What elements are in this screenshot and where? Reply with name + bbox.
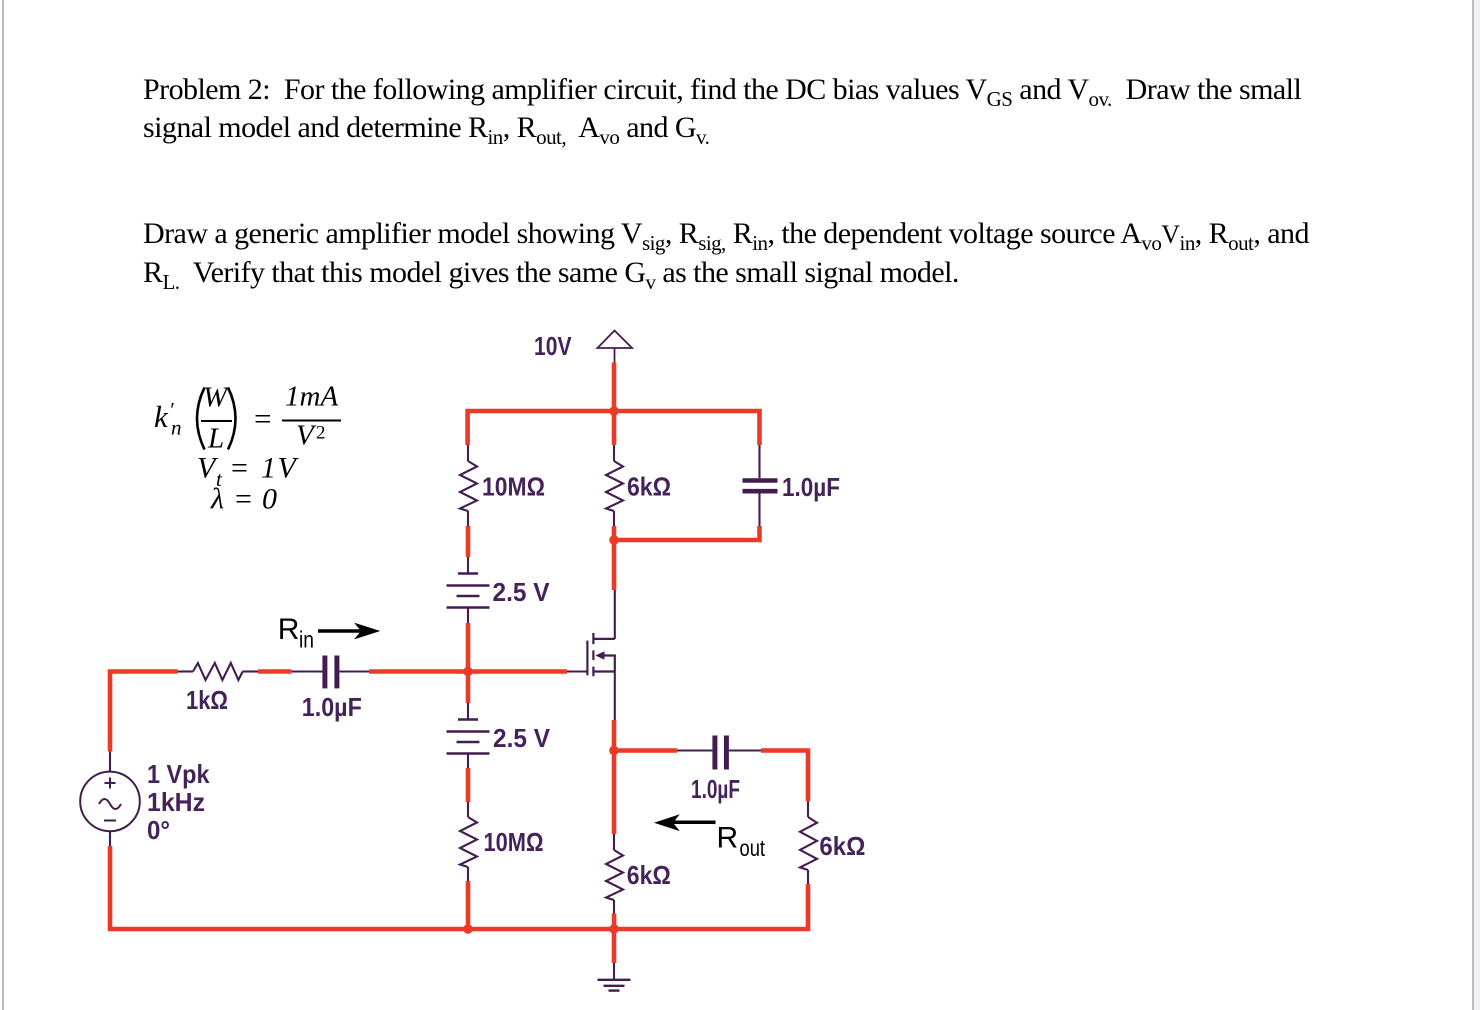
right page border bbox=[1472, 0, 1475, 1010]
left big paren bbox=[197, 388, 205, 450]
svg-text:1.0µF: 1.0µF bbox=[691, 774, 740, 804]
resistor R4 10MOhm (lower gate bias) bbox=[460, 817, 477, 867]
svg-text:R: R bbox=[717, 822, 739, 855]
battery V1 2.5V (upper) bbox=[447, 574, 490, 608]
svg-text:2.5 V: 2.5 V bbox=[493, 723, 551, 753]
equation kn'(W/L)=1mA/V^2 bbox=[154, 398, 182, 440]
node: supply rail junction bbox=[609, 406, 619, 416]
svg-text:k: k bbox=[154, 399, 169, 434]
wire: R2 leads bbox=[467, 445, 469, 526]
svg-text:0: 0 bbox=[262, 483, 277, 516]
wire: drain column red segments bbox=[612, 411, 617, 590]
resistor R3 6kOhm (drain) bbox=[606, 461, 623, 511]
wire: gate column red segments bbox=[466, 526, 471, 931]
svg-text:V: V bbox=[296, 420, 317, 452]
svg-text:n: n bbox=[171, 416, 182, 440]
equation Vt = 1 V bbox=[197, 452, 300, 492]
wire: top supply rail bbox=[468, 411, 760, 445]
wire: ground lead bbox=[613, 963, 615, 979]
ground bbox=[598, 980, 631, 991]
svg-text:in: in bbox=[299, 627, 314, 653]
wire: output row to load bbox=[614, 751, 808, 802]
svg-text:=: = bbox=[231, 452, 248, 485]
svg-text:10MΩ: 10MΩ bbox=[484, 827, 544, 857]
svg-text:10V: 10V bbox=[534, 331, 572, 361]
wire: C2 leads bbox=[758, 445, 760, 526]
svg-text:6kΩ: 6kΩ bbox=[627, 472, 671, 502]
svg-text:2: 2 bbox=[316, 423, 326, 444]
wire: left loop (source column, bottom rail, right load column) bbox=[110, 672, 808, 930]
capacitor C1 1.0uF (input coupling) bbox=[325, 656, 337, 689]
svg-text:10MΩ: 10MΩ bbox=[482, 472, 545, 502]
resistor R2 10MOhm (upper gate bias) bbox=[460, 461, 477, 511]
node: gate junction bbox=[463, 667, 473, 677]
wire: R1 lead left bbox=[178, 670, 193, 672]
battery V2 2.5V (lower) bbox=[447, 720, 490, 754]
resistor R6 6kOhm (load) bbox=[800, 817, 817, 870]
node: source junction bbox=[609, 746, 619, 756]
svg-text:=: = bbox=[254, 401, 271, 436]
node: bottom rail junction right bbox=[609, 924, 619, 934]
wire: input row red segments bbox=[258, 669, 567, 674]
svg-text:V: V bbox=[278, 452, 300, 485]
svg-text:1kΩ: 1kΩ bbox=[186, 685, 228, 715]
svg-text:1.0µF: 1.0µF bbox=[782, 472, 840, 502]
wire: gate lead of Q1 bbox=[567, 670, 587, 672]
wire: R3 leads bbox=[613, 445, 615, 526]
wire: V1 leads bbox=[467, 557, 469, 623]
wire: C3 lead left bbox=[677, 749, 712, 751]
wire: R4 leads bbox=[467, 802, 469, 881]
transistor Q1 NMOS bbox=[587, 633, 614, 676]
left page border bbox=[2, 0, 4, 1010]
node: bottom rail junction left bbox=[463, 924, 473, 934]
wire: R6 leads bbox=[807, 801, 809, 884]
source V3 AC 1Vpk bbox=[80, 772, 140, 832]
wire: R1 lead right bbox=[243, 670, 258, 672]
svg-text:1.0µF: 1.0µF bbox=[302, 692, 362, 722]
svg-text:out: out bbox=[740, 835, 766, 861]
wire: V3 bottom lead bbox=[109, 832, 111, 847]
paragraph 2 bbox=[143, 215, 1480, 292]
svg-text:0°: 0° bbox=[147, 815, 170, 845]
wire: C1 lead left bbox=[292, 670, 323, 672]
svg-text:=: = bbox=[235, 483, 252, 516]
wire: Q1 source lead bbox=[614, 672, 616, 721]
svg-text:2.5 V: 2.5 V bbox=[493, 577, 551, 607]
resistor R5 6kOhm (source) bbox=[606, 850, 623, 900]
svg-text:L: L bbox=[207, 423, 224, 455]
svg-text:W: W bbox=[203, 382, 230, 414]
wire: V2 leads bbox=[467, 703, 469, 768]
svg-text:1mA: 1mA bbox=[285, 381, 338, 413]
wire: R5 leads bbox=[613, 834, 615, 914]
wire: supply stub bbox=[612, 363, 617, 414]
node: drain junction bbox=[609, 535, 619, 545]
wire: Q1 drain lead bbox=[614, 590, 616, 639]
equation lambda = 0 bbox=[210, 483, 277, 516]
capacitor C3 1.0uF (output coupling) bbox=[715, 736, 727, 770]
wire: V3 top lead bbox=[109, 752, 111, 773]
wire: C1 lead right bbox=[339, 670, 369, 672]
svg-text:6kΩ: 6kΩ bbox=[627, 860, 671, 890]
wire: source column red segments bbox=[612, 720, 617, 963]
svg-text:R: R bbox=[278, 613, 300, 646]
svg-text:λ: λ bbox=[210, 483, 224, 516]
right big paren bbox=[228, 388, 236, 450]
capacitor C2 1.0uF (drain bypass) bbox=[743, 481, 778, 492]
svg-text:1: 1 bbox=[261, 452, 276, 485]
power symbol 10V supply triangle bbox=[598, 331, 633, 363]
resistor R1 1kOhm (signal) bbox=[193, 663, 243, 680]
svg-text:1kHz: 1kHz bbox=[147, 787, 205, 817]
right gutter strip bbox=[1474, 0, 1480, 1010]
paragraph 1 bbox=[143, 71, 1480, 147]
svg-text:1 Vpk: 1 Vpk bbox=[147, 759, 210, 789]
svg-text:6kΩ: 6kΩ bbox=[819, 831, 865, 861]
wire: drain to bypass-cap link bbox=[614, 526, 760, 540]
wire: C3 lead right bbox=[729, 749, 761, 751]
